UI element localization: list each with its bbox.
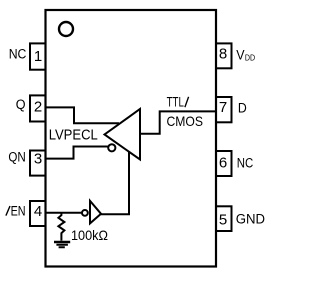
pin 8 box <box>216 43 232 68</box>
svg-text:TTL: TTL <box>167 93 184 109</box>
svg-text:V: V <box>236 47 245 63</box>
op-amp/receiver triangle U1a <box>105 109 141 160</box>
svg-text:LVPECL: LVPECL <box>49 126 98 143</box>
pin-1 indicator circle <box>59 22 73 36</box>
wire Q (pin2 to receiver) <box>46 107 120 123</box>
svg-text:GND: GND <box>236 211 266 226</box>
pin 2 box <box>30 95 46 121</box>
label TTL slash <box>185 97 189 107</box>
IC body U1 <box>46 10 217 267</box>
ground <box>54 241 70 249</box>
pin 3 box <box>30 151 46 176</box>
enable buffer bubble <box>82 210 88 216</box>
svg-text:7: 7 <box>219 99 227 116</box>
pin 4 box <box>30 201 46 226</box>
svg-text:3: 3 <box>34 150 42 167</box>
svg-text:4: 4 <box>34 203 42 220</box>
inverting bubble on QN output <box>108 144 115 151</box>
svg-text:DD: DD <box>245 52 255 62</box>
enable buffer triangle <box>90 201 101 224</box>
svg-text:EN: EN <box>11 203 26 218</box>
svg-text:5: 5 <box>219 211 227 228</box>
svg-text:8: 8 <box>219 46 227 63</box>
svg-text:100kΩ: 100kΩ <box>71 227 108 243</box>
svg-text:CMOS: CMOS <box>167 113 204 129</box>
pin 7 box <box>216 97 232 122</box>
wire D (pin7 to receiver input) <box>141 111 216 133</box>
wire QN (pin3 to inverting bubble) <box>46 147 109 159</box>
wire /EN (pin4 to buffer) <box>46 212 83 214</box>
pin 6 box <box>216 151 232 176</box>
pin 1 box <box>30 43 46 69</box>
svg-text:D: D <box>238 101 247 116</box>
svg-text:Q: Q <box>16 97 26 112</box>
svg-text:2: 2 <box>34 99 42 116</box>
svg-text:NC: NC <box>9 47 27 62</box>
svg-text:1: 1 <box>34 48 42 65</box>
svg-text:NC: NC <box>237 156 254 171</box>
pin 4 label /EN slash <box>6 206 10 216</box>
svg-text:6: 6 <box>219 155 227 172</box>
wire EN-buffer output to receiver <box>101 151 129 214</box>
pin 5 box <box>216 206 232 231</box>
svg-text:QN: QN <box>8 149 25 164</box>
resistor R1 100k <box>58 213 64 241</box>
